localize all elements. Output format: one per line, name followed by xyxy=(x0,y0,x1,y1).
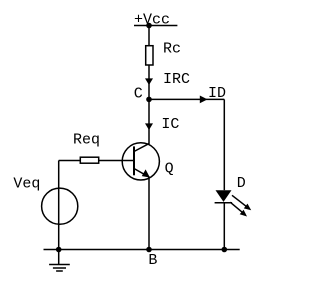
transistor Q xyxy=(122,143,173,180)
wire Rc to node C xyxy=(148,65,150,99)
wire right branch down to LED xyxy=(223,99,225,190)
svg-text:C: C xyxy=(134,86,143,103)
svg-text:B: B xyxy=(148,252,157,269)
wire LED to bottom rail xyxy=(223,203,225,250)
svg-text:ID: ID xyxy=(208,85,226,102)
LED D xyxy=(215,175,252,217)
svg-text:Req: Req xyxy=(73,132,100,149)
svg-text:Rc: Rc xyxy=(163,41,181,58)
wire corner down through Veq xyxy=(58,161,60,250)
wire Req to corner xyxy=(59,160,81,162)
resistor Rc xyxy=(146,41,181,66)
current arrow IC xyxy=(145,116,179,133)
power +Vcc xyxy=(134,12,177,29)
bottom rail wire xyxy=(44,249,240,251)
ground xyxy=(49,250,70,272)
source Veq xyxy=(13,176,77,225)
svg-text:Veq: Veq xyxy=(13,176,40,193)
wire Vcc to Rc xyxy=(148,26,150,46)
wire base to Req xyxy=(99,160,134,162)
svg-text:Q: Q xyxy=(165,161,174,178)
node C xyxy=(134,86,152,103)
node B xyxy=(146,247,157,269)
svg-text:IRC: IRC xyxy=(163,71,190,88)
svg-text:IC: IC xyxy=(161,116,179,133)
junction dot LED branch xyxy=(222,247,228,253)
wire node C to transistor collector xyxy=(148,99,150,143)
current arrow IRC xyxy=(145,71,190,88)
current arrow ID xyxy=(200,85,226,103)
junction dot Veq xyxy=(56,247,62,253)
resistor Req xyxy=(73,132,100,164)
wire node C to right branch xyxy=(149,98,224,100)
wire emitter to node B xyxy=(148,177,150,249)
svg-text:D: D xyxy=(237,175,246,192)
